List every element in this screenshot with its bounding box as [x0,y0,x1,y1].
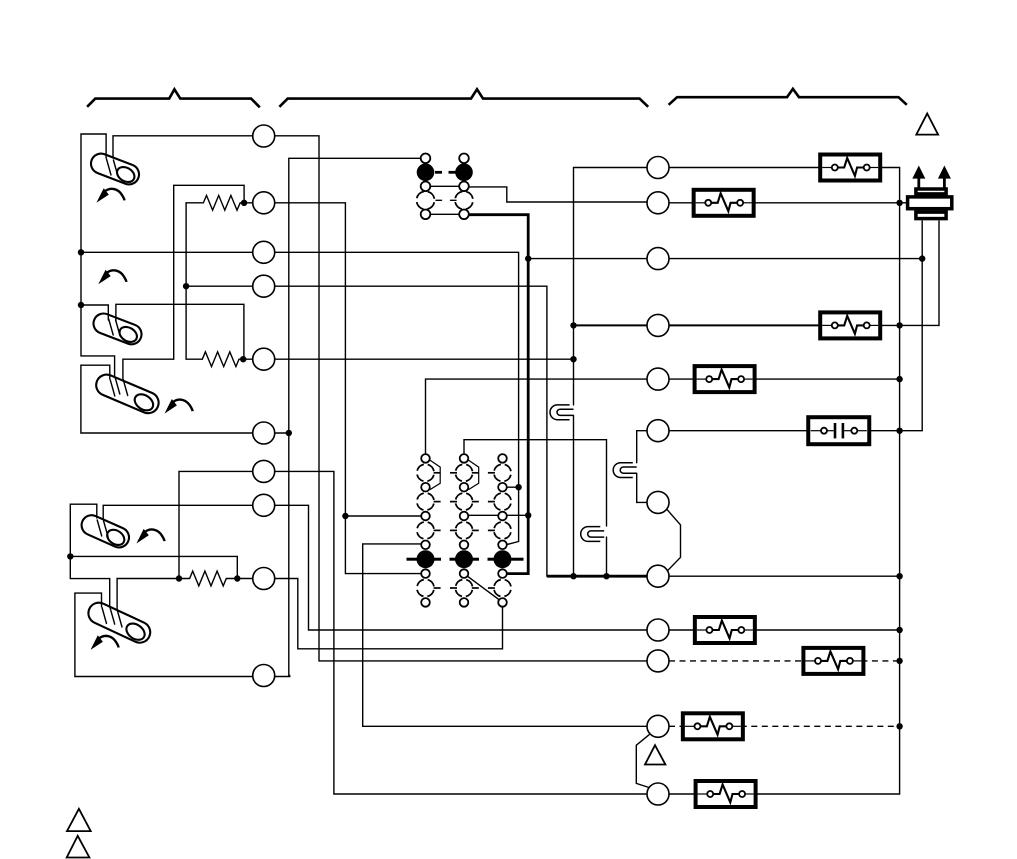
wire: OUT9 row to box E and bus [669,629,697,631]
mini switch column 2 contacts [455,154,473,220]
node dot: bold bus / OUT3 row [525,255,531,261]
wire: OUT5 row to box D and right bus [669,378,697,380]
wire: T4 right to bold bus corner [275,286,547,576]
terminal T5 [253,348,275,370]
node dot: right bus / OUT8 row [896,573,902,579]
overload breaker box E [695,617,755,643]
wire: pot4 left lead chain down to pot5 lead A [70,504,109,607]
node dot: transformer left leg / OUT3 [919,255,925,261]
wire: T2 right down to switch col1 rows [275,203,422,574]
wire: T9 right to col3 bottom contact [275,579,503,649]
mini switch dashed-row dashes [436,199,442,201]
wire: R1 right node up-left to pot3 lead3 [123,185,244,378]
wire: T1 right to OUT10 row [275,136,647,661]
brace: right group [669,89,907,105]
jumper loop W1 [550,405,573,420]
node dot: col3 small row2 branch [515,484,521,490]
wire: box A to right bus corner [880,168,900,795]
wire: pot2 right lead to R2 right node [116,304,244,359]
overload breaker box H [696,781,756,807]
wire: box B to transformer [752,202,906,204]
power transformer symbol [908,189,952,219]
main switch column 3 contacts [494,454,512,607]
arrow: RP3 rotation [165,399,193,414]
wire: main col2 top up and right to loop3 chain [464,440,607,526]
terminal T8 [253,494,275,516]
node dot: left bus / pot2 line [78,302,84,308]
terminal T7 [253,460,275,482]
wire: L6 box chain (pot3 lead1) [81,365,253,433]
potentiometer RP5 (long) [85,599,154,646]
terminal T2 [253,192,275,214]
arrow: RP5 rotation [91,635,119,650]
terminal OUT7 [647,491,669,513]
arrow: RP1 rotation [96,188,124,203]
wire: left bus to pot2 left lead [81,305,108,320]
terminal OUT1 [647,157,669,179]
terminal OUT6 [647,420,669,442]
terminal T9 [253,568,275,590]
power arrow right [938,166,951,189]
potentiometer RP1 [88,151,142,188]
power arrow left [912,166,925,189]
wire: loop3 bottom to bold bus dot [606,537,608,576]
terminal OUT10 [647,650,669,672]
wire: R1 left lead down (to R2 left) [186,203,202,359]
wire: left bus vertical (pot1-left to pot3 lead2) [81,134,115,376]
terminal OUT11 [647,715,669,737]
potentiometer RP4 [78,512,132,551]
wire: dot to terminal OUT4 (semibold) [574,324,648,326]
node dot: pot4-left bus / R3 row [67,553,73,559]
terminal OUT5 [647,368,669,390]
node dot: loop1 chain / OUT4 row [570,322,576,328]
wire: bold bus to OUT8 (bold) [547,575,647,578]
brace: middle group [279,89,648,107]
wire: dot to terminal T4 [186,285,253,287]
terminal T4 [253,275,275,297]
resistor R3 [179,571,253,586]
main switch column 1 contacts [417,454,435,607]
wire: T7 right to OUT12 row [275,471,647,794]
arrow: rotation above pot2 [98,270,126,285]
main selector switch: active row bold dashes [407,558,524,561]
main switch column 2 contacts [455,454,473,607]
resistor R2 [202,352,252,367]
wire: mini col2 bottom contact to bold bus (bold) [469,215,529,574]
note triangle 2 (bottom left upper) [67,809,91,831]
terminal T3 [253,241,275,263]
overload breaker box D [695,366,755,392]
jumper loop W3 [581,527,604,542]
wire: dot to col1 small contact [345,515,421,517]
wire: loop1 bottom to bold bus dot [573,415,575,576]
overload breaker box G [683,713,743,739]
note triangle 1 (top right) [916,114,938,135]
terminal T6 [253,422,275,444]
mini selector switch: small contacts row [430,185,460,187]
node dot: loop1 chain on bold bus [570,573,576,579]
node dot: left bus / T3 line [78,249,84,255]
terminal OUT3 [647,248,669,270]
terminal T10 [253,665,275,687]
wire: OUT5 left down to main col1 top [426,379,648,454]
overload breaker box F [803,648,863,674]
node dot: R1 right / T2 [241,200,247,206]
note triangle 4 (near bottom terminals) [645,745,665,764]
overload breaker box B [694,190,754,216]
potentiometer RP2 [91,311,145,348]
arrow: RP4 rotation [136,529,164,544]
node dot: R3 right [234,575,240,581]
wire: OUT10 dashed row through box F [669,660,805,662]
terminal OUT2 [647,192,669,214]
mini switch solid contact dashes (bold) [435,171,442,174]
wire: mini-switch col1 top to T6/T10 vertical [275,158,421,676]
node dot: branch to col1 small (row3 top) [342,513,348,519]
main switch bypass diagonal col1 [429,460,440,490]
wire: R3 left line to pot5 lead B [117,579,179,611]
terminal OUT4 [647,314,669,336]
wire: OUT3 row to transformer left leg [528,258,647,260]
wire: col1 row3-bottom contact to OUT11 row [363,544,647,726]
main selector switch: normal row dashes [434,473,495,588]
wire: OUT11/OUT12 left bracket [636,735,649,788]
node dot: right bus / OUT9 row [896,627,902,633]
wire: pot5 box to terminal T10 [75,593,253,676]
node dot: T5 line / loop1 vertical [570,356,576,362]
overload breaker box C [820,312,880,338]
run capacitor box [808,417,869,444]
node dot: R2 right / T5 [240,356,246,362]
node dot: right bus / OUT6 row [896,428,902,434]
node dot: R3 left [176,575,182,581]
wire: col3 small row2 to dot [507,486,519,488]
node dot: right bus / OUT2 row [896,200,902,206]
wire: OUT7/OUT8 right bracket [667,510,680,571]
node dot: T6 stub junction [286,430,292,436]
node dot: right bus / OUT11 row [896,723,902,729]
jumper loop W2 [613,463,636,478]
main switch diagonal col2-col3 bottom [467,576,500,601]
wire: OUT12 row through box H to bus bottom [669,793,698,795]
wire: T6 right stub [275,432,289,434]
wire: OUT1 row to breaker box A [669,167,820,169]
wire: loop2 bottom to terminal OUT7 [637,473,647,502]
terminal OUT9 [647,619,669,641]
node dot: T4 line on R1-left vertical [183,283,189,289]
wire: OUT8 row right to bus [669,575,900,577]
potentiometer RP3 (long) [93,371,162,416]
wire: T3 right to col3 contacts vertical [275,252,519,544]
node dot: bold bus / col smalls row [525,512,531,518]
terminal OUT8 [647,565,669,587]
terminal T1 [253,125,275,147]
wire: left bus to terminal T3 [81,251,253,253]
wire: col smalls row3 to bold bus [468,514,528,516]
wire: OUT4 row to box C and transformer right leg [669,324,820,326]
wire: T5 right to loop1 vertical dot [275,358,574,360]
wire: OUT11 dashed row through box G [669,725,685,727]
wire: T8 right to OUT9 row [275,505,647,630]
wire: pot4 right lead to terminal T8 [103,505,253,519]
node dot: loop3 chain on bold bus [603,573,609,579]
wire: pot1 right lead to terminal T1 [113,136,253,158]
main switch bypass diagonal col2 [468,460,479,490]
wire: OUT6 row to capacitor box and transformer left leg [669,430,808,432]
node dot: right bus / OUT10 row [896,658,902,664]
node dot: right bus / OUT5 row [896,376,902,382]
wire: mini col2 mid contact to terminal OUT2 [469,187,648,202]
wire: OUT2 row to box B [669,202,696,204]
wire: dot to R3 right node [70,556,237,578]
resistor R1 (authority) [186,195,253,210]
wire: terminal T7 line left segment to R3-left vertical [179,471,253,578]
brace: left group [87,89,260,107]
mini switch column 1 contacts [417,154,435,220]
wire: OUT6 left stub down to loop2 [637,431,647,463]
node dot: right bus / OUT4 row [896,322,902,328]
note triangle 3 (bottom left lower) [67,836,90,858]
overload breaker box A [820,155,880,181]
wire: OUT1 left to loop1 chain vertical [574,168,648,405]
terminal OUT12 [647,783,669,805]
